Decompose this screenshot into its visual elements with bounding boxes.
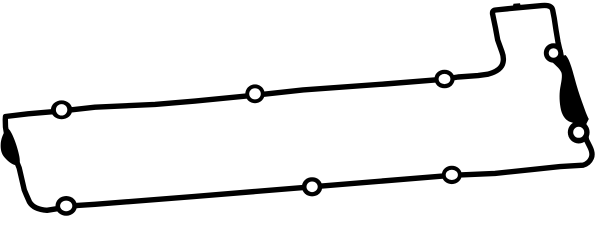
bolt hole 6 (bottom-right) xyxy=(442,166,462,184)
bolt hole 1 (top-left) xyxy=(51,100,72,119)
bolt hole 2 (top-middle) xyxy=(245,84,264,103)
bolt hole 8 (bottom-left) xyxy=(55,196,76,216)
bolt hole 7 (bottom-middle) xyxy=(302,177,322,196)
extension top edge bump xyxy=(513,3,522,7)
bolt hole 4 (extension right) xyxy=(544,43,563,62)
right edge blob xyxy=(551,55,589,125)
bolt hole 5 (lower-right) xyxy=(568,121,590,143)
left edge blob xyxy=(1,129,20,166)
bolt hole 3 (top-right) xyxy=(434,70,454,89)
